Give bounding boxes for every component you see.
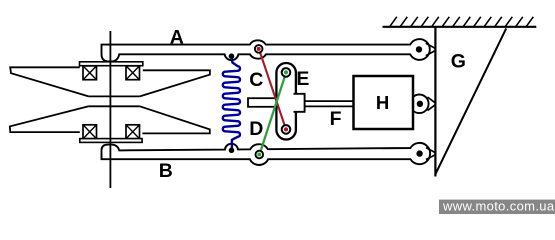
svg-text:B: B [159, 160, 173, 182]
svg-text:C: C [249, 69, 263, 91]
svg-text:F: F [330, 108, 342, 130]
svg-text:www.moto.com.ua: www.moto.com.ua [442, 198, 555, 213]
svg-text:H: H [376, 92, 389, 113]
svg-text:D: D [249, 118, 263, 140]
svg-text:G: G [451, 50, 466, 72]
svg-text:A: A [170, 26, 184, 48]
svg-text:E: E [296, 68, 309, 90]
